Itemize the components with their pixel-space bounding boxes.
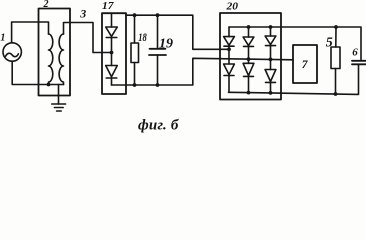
- capacitor 19 plate top: [150, 48, 166, 50]
- diode VD7 cathode bar: [266, 45, 276, 47]
- junction top rail resistor 5: [334, 25, 338, 29]
- transformer block 2 enclosure: [39, 9, 71, 96]
- svg-text:1: 1: [0, 33, 5, 44]
- svg-text:2: 2: [43, 0, 49, 10]
- capacitor 19 lead top: [157, 15, 159, 49]
- junction bottom rail col3: [269, 91, 273, 95]
- diode VD4: [224, 64, 235, 75]
- capacitor 6 plate bottom: [352, 63, 366, 65]
- junction top rail col3: [269, 25, 273, 29]
- diode VD6: [243, 63, 254, 75]
- junction bottom rail resistor 5: [334, 92, 338, 96]
- diode VD1 cathode bar: [106, 37, 117, 39]
- diode VD8: [265, 70, 276, 82]
- transformer primary winding: [49, 34, 53, 85]
- capacitor 19 plate bottom: [149, 54, 166, 56]
- bottom rail from block 17: [112, 58, 294, 85]
- diode VD3 lead: [228, 27, 230, 37]
- diode block 17 enclosure: [102, 13, 126, 94]
- junction rail B col3: [269, 58, 273, 62]
- ground bar 2: [54, 107, 63, 109]
- diode VD6 lead to rail: [248, 76, 250, 92]
- junction capacitor 19 bottom: [156, 83, 160, 87]
- diode VD7 lead: [270, 27, 272, 36]
- junction primary bottom: [47, 83, 51, 87]
- svg-text:20: 20: [225, 1, 238, 13]
- junction diode midpoint: [110, 51, 114, 55]
- diode VD3 lead to node: [228, 46, 230, 49]
- junction resistor 18 bottom: [133, 83, 137, 87]
- junction bottom rail col2: [247, 91, 251, 95]
- ac source G1: [3, 43, 21, 61]
- top rail from block 17: [126, 15, 229, 49]
- junction rail B col2: [247, 57, 251, 61]
- junction top rail col2: [247, 25, 251, 29]
- diode VD2 lead: [111, 53, 113, 66]
- svg-text:19: 19: [159, 36, 173, 51]
- diode VD5 lead to rail B: [248, 46, 250, 63]
- resistor 5 lead top: [335, 27, 337, 47]
- svg-text:5: 5: [326, 36, 333, 51]
- diode VD1 lead: [111, 14, 113, 27]
- rectifier top rail to output: [229, 27, 361, 61]
- junction resistor 18 top: [133, 13, 137, 17]
- resistor 18 lead bottom: [134, 63, 136, 86]
- diode VD6 cathode bar: [244, 75, 254, 77]
- diode VD7: [265, 36, 276, 45]
- diode VD1 lead to node: [111, 38, 113, 53]
- resistor 5 body: [331, 47, 340, 69]
- diode VD4 lead: [228, 49, 230, 64]
- diode VD7 lead to rail B: [270, 46, 272, 70]
- diode VD4 lead to rail: [228, 76, 230, 93]
- wire source bottom to common rail: [12, 62, 63, 85]
- diode VD2 cathode bar: [106, 77, 117, 79]
- ac source sine wave: [6, 53, 19, 56]
- resistor 18 lead top: [134, 15, 136, 43]
- svg-text:18: 18: [138, 30, 147, 44]
- junction rail A col1: [227, 47, 231, 51]
- ground lead: [58, 85, 60, 105]
- ground bar 3: [57, 110, 62, 112]
- diode VD4 cathode bar: [224, 75, 234, 77]
- svg-text:фиг. б: фиг. б: [138, 118, 179, 134]
- diode VD1: [106, 27, 118, 36]
- resistor 5 lead bottom: [335, 69, 337, 95]
- resistor 18 body: [131, 43, 139, 63]
- rectifier bottom rail to output: [229, 64, 359, 94]
- wire secondary to node 3: [64, 23, 112, 53]
- rectifier block 20 enclosure: [220, 13, 281, 100]
- diode VD8 lead to rail: [270, 82, 272, 93]
- diode VD5 lead: [248, 27, 250, 37]
- diode VD8 cathode bar: [266, 81, 276, 83]
- svg-text:17: 17: [102, 0, 114, 12]
- diode VD5 cathode bar: [244, 45, 254, 47]
- diode VD2 lead to rail: [111, 78, 113, 85]
- capacitor 6 plate top: [352, 60, 366, 62]
- junction capacitor 19 top: [156, 13, 160, 17]
- block 7 enclosure: [293, 45, 317, 83]
- diode VD3: [224, 37, 235, 46]
- ground bar 1: [52, 103, 66, 105]
- transformer secondary winding: [59, 34, 63, 85]
- svg-text:6: 6: [352, 46, 358, 58]
- wire source top to transformer primary: [12, 22, 49, 43]
- svg-text:7: 7: [302, 59, 309, 71]
- diode VD5: [243, 37, 254, 46]
- diode VD3 cathode bar: [224, 45, 234, 47]
- capacitor 19 lead bottom: [157, 55, 159, 85]
- diode VD2: [106, 66, 118, 77]
- svg-text:3: 3: [79, 6, 86, 20]
